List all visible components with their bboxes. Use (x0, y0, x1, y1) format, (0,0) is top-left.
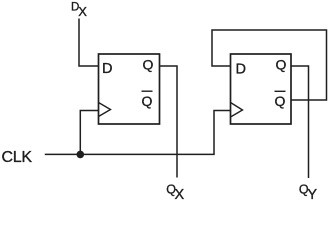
wire CLK bus (45, 111, 231, 155)
svg-text:Y: Y (307, 187, 317, 203)
D flip-flop U2 body (231, 54, 292, 124)
svg-text:D: D (102, 61, 112, 77)
D flip-flop U1 body (99, 54, 160, 124)
node QX label (166, 182, 184, 203)
node DX label (71, 2, 87, 19)
wire DX input to U1 D pin (79, 19, 99, 67)
svg-text:X: X (78, 4, 87, 19)
node QY label (299, 182, 318, 203)
wire U2 Q output to node QY (291, 66, 309, 178)
wire U2 Qbar feedback loop to U2 D pin (212, 30, 327, 100)
svg-text:D: D (236, 62, 246, 78)
pin label Qbar of U2 (275, 91, 286, 109)
pin label Qbar of U1 (142, 91, 153, 109)
svg-text:CLK: CLK (2, 149, 33, 166)
clock edge triangle U2 (231, 103, 243, 118)
svg-text:Q: Q (276, 56, 287, 72)
svg-text:X: X (175, 187, 185, 203)
wire CLK junction to U1 clock pin (80, 111, 98, 155)
svg-text:Q: Q (142, 93, 153, 109)
svg-text:Q: Q (275, 93, 286, 109)
svg-text:Q: Q (143, 56, 154, 72)
clock edge triangle U1 (99, 103, 111, 117)
junction dot on CLK (77, 151, 85, 159)
wire U1 Q output to node QX (160, 66, 178, 178)
